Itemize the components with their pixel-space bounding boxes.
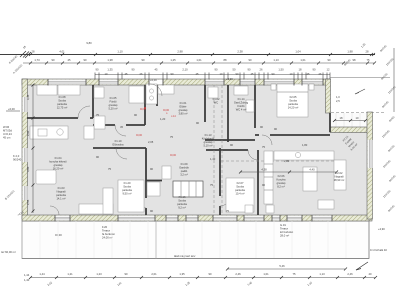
ticks dim line 2 bbox=[29, 62, 376, 65]
left margin text 4 bbox=[4, 189, 16, 201]
svg-text:3,80 m²: 3,80 m² bbox=[178, 112, 187, 116]
svg-text:F1.05: F1.05 bbox=[110, 96, 117, 100]
tall cabinet column right unit bbox=[264, 151, 273, 204]
coffee table living bbox=[318, 200, 334, 209]
bottom main numbers bbox=[39, 272, 372, 276]
svg-text:50: 50 bbox=[233, 68, 236, 72]
svg-text:1,35: 1,35 bbox=[179, 272, 185, 276]
sliding door bottom wall 6 bbox=[312, 216, 332, 221]
interior wall bedroom2 bottom bbox=[255, 134, 330, 136]
bed bedroom2 bbox=[277, 84, 308, 117]
svg-text:18: 18 bbox=[340, 116, 343, 120]
room label entry bbox=[178, 101, 187, 116]
label gardrob bbox=[179, 162, 189, 177]
room label hall left bbox=[112, 139, 124, 150]
closet divider 3 bbox=[195, 181, 197, 197]
window top wall 2 bbox=[99, 80, 118, 85]
svg-text:75: 75 bbox=[226, 209, 229, 213]
fridge left unit bbox=[84, 126, 94, 139]
svg-text:1,44: 1,44 bbox=[39, 272, 45, 276]
wardrobe center a bbox=[162, 166, 171, 179]
svg-text:28,0 m²: 28,0 m² bbox=[280, 234, 289, 238]
glazed gap bottom d bbox=[272, 216, 280, 221]
svg-text:1,20: 1,20 bbox=[160, 117, 166, 121]
svg-text:Fürdő: Fürdő bbox=[109, 100, 117, 104]
interior wall bath bottom bbox=[93, 124, 145, 126]
kitchen counter left unit bbox=[30, 126, 68, 139]
terrace deck stripes bbox=[40, 221, 346, 258]
svg-text:2,46: 2,46 bbox=[235, 272, 241, 276]
svg-text:1,13: 1,13 bbox=[319, 272, 325, 276]
right vertical dim line bbox=[393, 48, 395, 112]
svg-text:5,46: 5,46 bbox=[279, 264, 285, 268]
svg-text:45: 45 bbox=[307, 72, 310, 76]
svg-text:90: 90 bbox=[215, 68, 218, 72]
svg-text:1,01: 1,01 bbox=[300, 58, 306, 62]
svg-text:greslap: greslap bbox=[277, 181, 286, 185]
svg-text:+0,00: +0,00 bbox=[150, 78, 157, 82]
svg-text:F1.13: F1.13 bbox=[205, 133, 212, 137]
svg-text:1,10: 1,10 bbox=[117, 49, 123, 53]
svg-text:1,21: 1,21 bbox=[67, 272, 73, 276]
svg-text:parketta: parketta bbox=[122, 188, 132, 192]
svg-text:greslap: greslap bbox=[204, 140, 213, 144]
svg-text:F2.06: F2.06 bbox=[278, 174, 285, 178]
door arc hall bbox=[116, 148, 127, 159]
terrace label right bbox=[280, 223, 293, 238]
svg-text:0.1 F2/valk 40: 0.1 F2/valk 40 bbox=[370, 248, 387, 252]
svg-text:F1.08: F1.08 bbox=[59, 95, 66, 99]
terrace label left bbox=[102, 225, 115, 240]
svg-text:+2,90: +2,90 bbox=[378, 227, 385, 231]
ticks chain row 3 bbox=[95, 73, 330, 80]
entrance gap top wall bbox=[149, 80, 163, 86]
interior wall wc right bbox=[227, 85, 229, 142]
floor slab main block bbox=[24, 80, 330, 217]
svg-text:konyha étkező: konyha étkező bbox=[49, 160, 67, 164]
svg-text:U=0,24: U=0,24 bbox=[3, 132, 12, 136]
svg-text:Előszoba: Előszoba bbox=[112, 143, 124, 147]
bed pillow line bbox=[277, 91, 308, 93]
svg-text:1,13: 1,13 bbox=[273, 58, 279, 62]
window left wall 2 bbox=[23, 148, 28, 162]
svg-text:1,44: 1,44 bbox=[24, 273, 30, 277]
svg-text:9,80: 9,80 bbox=[86, 41, 92, 45]
svg-text:1,40: 1,40 bbox=[210, 157, 216, 161]
svg-text:90: 90 bbox=[171, 72, 174, 76]
svg-text:1,80: 1,80 bbox=[302, 143, 308, 147]
svg-text:45: 45 bbox=[251, 72, 254, 76]
left level marker bbox=[6, 107, 20, 111]
svg-text:fa burkolat: fa burkolat bbox=[102, 232, 115, 236]
nightstand b bbox=[309, 84, 314, 90]
sliding door bottom wall 2 bbox=[118, 216, 155, 221]
post base a bbox=[245, 205, 253, 213]
gard fixture 2 bbox=[246, 100, 254, 112]
door swing marks living left bbox=[50, 206, 59, 215]
left margin text 3 bbox=[13, 154, 22, 162]
svg-text:12: 12 bbox=[327, 68, 330, 72]
room label hall right bbox=[202, 133, 215, 148]
room label bedroom3 bbox=[122, 181, 132, 196]
svg-text:4,40: 4,40 bbox=[309, 168, 315, 172]
window top wall 6 bbox=[302, 80, 323, 85]
svg-text:90: 90 bbox=[125, 272, 128, 276]
svg-text:75: 75 bbox=[108, 167, 111, 171]
svg-text:40: 40 bbox=[369, 272, 372, 276]
svg-text:±0,00: ±0,00 bbox=[136, 134, 143, 137]
roof eave line right bbox=[330, 77, 390, 79]
svg-text:±0,00: ±0,00 bbox=[170, 154, 177, 157]
svg-text:10: 10 bbox=[220, 72, 223, 76]
svg-text:10: 10 bbox=[105, 72, 108, 76]
interior wall bedroom4 right bbox=[257, 150, 259, 215]
right exterior wall hatch of extension bbox=[367, 112, 373, 219]
room label wc bbox=[213, 97, 220, 105]
interior wall bedroom1 bottom bbox=[27, 117, 93, 119]
kitchen stove bbox=[38, 129, 47, 136]
svg-text:F2.05: F2.05 bbox=[290, 95, 297, 99]
room label bedroom1 bbox=[57, 95, 68, 110]
washing machine bbox=[94, 116, 105, 129]
svg-text:Előtér: Előtér bbox=[179, 105, 186, 109]
left margin diag text 2 bbox=[12, 63, 24, 75]
svg-text:90: 90 bbox=[132, 68, 135, 72]
svg-text:Nappali: Nappali bbox=[334, 175, 344, 179]
wardrobe center b bbox=[147, 182, 160, 196]
bathtub bbox=[129, 86, 144, 103]
bed bedroom3 bbox=[118, 180, 144, 212]
sofa left unit horizontal bbox=[79, 204, 113, 214]
window left wall 1 bbox=[23, 97, 28, 112]
svg-text:Nappali: Nappali bbox=[56, 190, 66, 194]
room label bedroom2 bbox=[288, 95, 299, 110]
window right wall bbox=[368, 140, 373, 168]
svg-text:F1.09: F1.09 bbox=[181, 162, 188, 166]
left wall legend bbox=[3, 125, 12, 140]
svg-text:F1.03: F1.03 bbox=[58, 186, 65, 190]
window top wall 3 bbox=[205, 80, 224, 85]
svg-text:12,75 m²: 12,75 m² bbox=[57, 106, 68, 110]
svg-text:90: 90 bbox=[260, 125, 263, 129]
numbers dim line 1 bbox=[32, 41, 369, 53]
ticks dim line 1 bbox=[29, 53, 375, 56]
svg-text:parketta: parketta bbox=[177, 202, 187, 206]
svg-text:K 2,0: K 2,0 bbox=[13, 154, 20, 158]
svg-text:3,9 m²: 3,9 m² bbox=[114, 146, 122, 150]
svg-text:greslap: greslap bbox=[109, 103, 118, 107]
svg-text:F1.01: F1.01 bbox=[180, 101, 187, 105]
svg-text:F1.02: F1.02 bbox=[213, 97, 220, 101]
svg-text:MT.05d: MT.05d bbox=[3, 129, 12, 133]
interior wall hall bottom bbox=[93, 147, 146, 149]
rotated label covered terrace bbox=[341, 134, 359, 152]
svg-text:90: 90 bbox=[96, 68, 99, 72]
svg-text:F1.14: F1.14 bbox=[238, 97, 245, 101]
wall stub y180 bbox=[146, 180, 162, 182]
svg-text:90: 90 bbox=[236, 72, 239, 76]
svg-text:W.06: W.06 bbox=[3, 125, 10, 129]
svg-text:Szoba: Szoba bbox=[289, 99, 297, 103]
svg-text:18: 18 bbox=[299, 68, 302, 72]
svg-text:90: 90 bbox=[150, 167, 153, 171]
interior wall bedroom1 right bbox=[92, 85, 94, 118]
glazed gap bottom b bbox=[186, 216, 198, 221]
window posts bottom band bbox=[55, 215, 332, 222]
basin niche bbox=[146, 84, 157, 104]
room label gard bbox=[234, 97, 249, 112]
left exterior wall hatch bbox=[22, 79, 28, 219]
red mark 4 bbox=[144, 107, 146, 109]
svg-text:parketta: parketta bbox=[288, 102, 298, 106]
interior wall bedroom3 right bbox=[219, 148, 221, 215]
svg-text:90: 90 bbox=[313, 68, 316, 72]
svg-text:26: 26 bbox=[140, 72, 143, 76]
floor slab right extension bbox=[330, 130, 372, 217]
svg-text:2,98: 2,98 bbox=[177, 49, 183, 53]
svg-text:10: 10 bbox=[356, 116, 359, 120]
bottom main ticks bbox=[29, 276, 377, 279]
svg-text:90: 90 bbox=[150, 209, 153, 213]
svg-text:3,60: 3,60 bbox=[26, 166, 30, 172]
door arc bath bbox=[115, 125, 126, 136]
svg-text:F1.20: F1.20 bbox=[124, 181, 131, 185]
interior wall entry right bbox=[204, 85, 206, 122]
svg-text:1,38: 1,38 bbox=[107, 58, 113, 62]
basin 1 bbox=[149, 89, 153, 93]
entry closet bbox=[158, 85, 174, 94]
wardrobe bedroom1 a bbox=[37, 85, 57, 95]
svg-text:2,55: 2,55 bbox=[26, 199, 30, 205]
numbers chain row 3 lower bbox=[105, 72, 322, 76]
bottom dim2 ticks bbox=[226, 268, 347, 271]
svg-text:28,90 m²: 28,90 m² bbox=[334, 178, 345, 182]
interior wall bedroom3 left bbox=[145, 148, 147, 215]
svg-text:F1.04: F1.04 bbox=[55, 156, 62, 160]
svg-text:F2.07: F2.07 bbox=[237, 181, 244, 185]
svg-text:Terasz: Terasz bbox=[102, 229, 111, 233]
svg-text:o 14: o 14 bbox=[171, 115, 176, 118]
window top wall 5 bbox=[264, 80, 294, 85]
bottom below numbers bbox=[24, 273, 313, 287]
svg-text:75: 75 bbox=[367, 58, 370, 62]
svg-text:1,50: 1,50 bbox=[278, 68, 284, 72]
svg-text:padló: padló bbox=[181, 169, 188, 173]
svg-text:75: 75 bbox=[293, 272, 296, 276]
svg-text:Szoba: Szoba bbox=[58, 99, 66, 103]
svg-text:10: 10 bbox=[290, 72, 293, 76]
svg-text:2,46: 2,46 bbox=[347, 272, 353, 276]
svg-text:±0,00: ±0,00 bbox=[163, 109, 170, 112]
door arc entry bbox=[150, 84, 162, 96]
svg-text:Szoba: Szoba bbox=[123, 185, 131, 189]
svg-text:75: 75 bbox=[96, 113, 99, 117]
svg-text:2,01: 2,01 bbox=[151, 272, 157, 276]
interior wall bedroom4 top bbox=[206, 149, 248, 151]
svg-text:kő burkolat: kő burkolat bbox=[280, 230, 293, 234]
bottom main dim line bbox=[30, 277, 375, 279]
bottom exterior wall hatch bbox=[22, 215, 372, 221]
svg-text:90: 90 bbox=[274, 127, 277, 131]
svg-text:G.01: G.01 bbox=[280, 223, 286, 227]
room label kitchen right bbox=[276, 174, 286, 189]
covered terrace strip bbox=[330, 113, 367, 127]
top extra diag marks bbox=[343, 58, 352, 67]
right margin diag texts bbox=[379, 44, 397, 213]
shower bath bbox=[94, 87, 104, 98]
svg-text:tsz 60,00 m²: tsz 60,00 m² bbox=[1, 250, 16, 254]
wardrobe bedroom1 b bbox=[58, 85, 80, 95]
closet block outline bbox=[173, 181, 203, 197]
dashed ridge line bbox=[221, 160, 336, 162]
left vdim numbers bbox=[26, 94, 30, 205]
svg-text:24,00 m²: 24,00 m² bbox=[102, 236, 113, 240]
door gap bedroom1 bbox=[78, 117, 90, 120]
kitchen counter right unit bbox=[274, 151, 334, 160]
door bottom wall 4 bbox=[250, 216, 262, 221]
svg-text:9,2 m²: 9,2 m² bbox=[178, 206, 186, 210]
door gap bath bbox=[115, 124, 126, 127]
sofa left unit vertical bbox=[103, 188, 113, 214]
svg-text:90: 90 bbox=[230, 143, 233, 147]
svg-text:45: 45 bbox=[125, 72, 128, 76]
svg-text:1,04: 1,04 bbox=[295, 49, 301, 53]
terrace right edge bbox=[368, 219, 370, 259]
svg-text:90: 90 bbox=[84, 58, 87, 62]
left vertical dim line bbox=[32, 85, 34, 213]
interior dim ticks bbox=[239, 171, 338, 174]
corner tick cluster row1 bbox=[20, 51, 31, 58]
svg-text:1,0: 1,0 bbox=[336, 95, 340, 99]
covered terrace top edge bbox=[331, 112, 385, 114]
dining table left unit bbox=[36, 170, 56, 184]
svg-text:8,2 m²: 8,2 m² bbox=[277, 185, 285, 189]
svg-text:9,50 m²: 9,50 m² bbox=[122, 192, 131, 196]
sofa living room bbox=[334, 160, 346, 190]
window posts top band bbox=[48, 79, 323, 86]
svg-text:1,01: 1,01 bbox=[196, 58, 202, 62]
svg-text:parketta: parketta bbox=[57, 102, 67, 106]
interior wall gard bottom bbox=[205, 139, 255, 141]
svg-text:1,40: 1,40 bbox=[24, 278, 30, 282]
svg-text:26: 26 bbox=[319, 72, 322, 76]
top dimension line 1 bbox=[0, 54, 375, 56]
svg-text:75: 75 bbox=[210, 183, 213, 187]
svg-text:2,38: 2,38 bbox=[237, 49, 243, 53]
numbers chain row 3 upper bbox=[96, 68, 330, 72]
svg-text:2,10: 2,10 bbox=[182, 68, 188, 72]
svg-text:14,20 m²: 14,20 m² bbox=[288, 106, 299, 110]
door arc bedroom4 bbox=[248, 150, 258, 160]
svg-text:90: 90 bbox=[272, 72, 275, 76]
svg-text:10,4 m²: 10,4 m² bbox=[235, 192, 244, 196]
svg-text:16,20 m²: 16,20 m² bbox=[53, 167, 64, 171]
door arc bedroom1 bbox=[78, 106, 90, 118]
svg-text:90: 90 bbox=[249, 58, 252, 62]
eave note texts bbox=[336, 95, 340, 103]
svg-text:greslap: greslap bbox=[54, 163, 63, 167]
door bottom wall 1 bbox=[55, 216, 70, 221]
bottom dim line 2 bbox=[227, 268, 345, 270]
svg-text:3,35: 3,35 bbox=[26, 94, 30, 100]
svg-text:90: 90 bbox=[52, 58, 55, 62]
interior wall gard right bbox=[254, 85, 256, 128]
svg-text:75: 75 bbox=[262, 145, 265, 149]
door gap bedroom2 bbox=[259, 134, 270, 137]
left vertical ticks bbox=[32, 84, 35, 213]
window top wall 4 bbox=[240, 80, 255, 85]
svg-text:1,73: 1,73 bbox=[34, 58, 40, 62]
svg-text:2,5: 2,5 bbox=[336, 99, 340, 103]
corner diag labels bbox=[22, 44, 27, 49]
svg-text:±0,00: ±0,00 bbox=[55, 233, 62, 237]
svg-text:28: 28 bbox=[32, 49, 35, 53]
svg-text:Gardrób: Gardrób bbox=[179, 166, 189, 170]
ticks chain extension bbox=[333, 119, 367, 122]
svg-text:Közlekedő: Közlekedő bbox=[202, 137, 215, 141]
left diag mark low bbox=[17, 210, 25, 217]
terrace outline bottom bbox=[22, 221, 369, 259]
extension top wall hatch bbox=[330, 127, 367, 133]
right wall of main block upper bbox=[326, 79, 331, 113]
svg-text:1,98: 1,98 bbox=[347, 49, 353, 53]
svg-text:90: 90 bbox=[209, 272, 212, 276]
svg-text:1,01: 1,01 bbox=[263, 272, 269, 276]
svg-text:4,38: 4,38 bbox=[261, 168, 267, 172]
svg-text:greslap: greslap bbox=[179, 108, 188, 112]
bottom arrow mark bbox=[356, 262, 368, 270]
door arc bedroom3 bbox=[136, 198, 146, 208]
svg-text:Gard.Zuhog: Gard.Zuhog bbox=[234, 101, 249, 105]
svg-text:45: 45 bbox=[68, 58, 71, 62]
terrace bottom edge bbox=[22, 258, 369, 260]
svg-text:90: 90 bbox=[142, 58, 145, 62]
interior dim numbers bbox=[261, 168, 315, 172]
door gap bedroom4 wall bbox=[219, 196, 222, 206]
interior wall bath right upper bbox=[144, 85, 146, 125]
dim chain row 3 bbox=[95, 74, 330, 76]
glazed gap bottom c bbox=[244, 216, 264, 221]
svg-text:WC: WC bbox=[214, 101, 219, 105]
svg-text:90: 90 bbox=[262, 183, 265, 187]
svg-text:98: 98 bbox=[353, 58, 356, 62]
room label living bbox=[334, 171, 345, 182]
svg-text:1,23: 1,23 bbox=[96, 272, 102, 276]
closet divider 1 bbox=[180, 181, 182, 197]
svg-text:90: 90 bbox=[134, 113, 137, 117]
svg-text:45: 45 bbox=[196, 72, 199, 76]
interior speckle texts bbox=[96, 113, 308, 213]
room label bedroom3b bbox=[177, 195, 187, 210]
top exterior wall hatch bbox=[22, 79, 330, 85]
interior dim line living bbox=[240, 171, 336, 173]
svg-text:90: 90 bbox=[328, 58, 331, 62]
svg-text:+0,00: +0,00 bbox=[226, 77, 233, 81]
room label bath bbox=[108, 96, 117, 111]
svg-text:4,01: 4,01 bbox=[59, 49, 65, 53]
svg-text:2,90: 2,90 bbox=[26, 130, 30, 136]
eave arrow bbox=[355, 89, 365, 94]
svg-text:5,20 m²: 5,20 m² bbox=[108, 107, 117, 111]
dining table right unit bbox=[303, 167, 317, 191]
svg-text:F.20: F.20 bbox=[102, 225, 108, 229]
room label bedroom4 bbox=[235, 181, 245, 196]
svg-text:14,1 m²: 14,1 m² bbox=[56, 197, 65, 201]
wall stub extension join bbox=[329, 113, 331, 132]
svg-text:75: 75 bbox=[170, 135, 173, 139]
svg-text:F1.10: F1.10 bbox=[115, 139, 122, 143]
dashed line vertical center bbox=[213, 85, 215, 213]
